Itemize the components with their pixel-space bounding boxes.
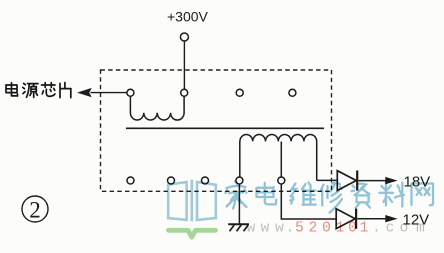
svg-text:0: 0	[322, 221, 331, 237]
watermark (site logo and url, decorative)	[168, 180, 433, 238]
wire +300V terminal to pin 2	[183, 41, 185, 89]
pin 4 (top row)	[289, 89, 296, 96]
label 电源芯片 (power chip), drawn strokes	[6, 83, 71, 98]
pin 2 (top row)	[181, 89, 188, 96]
svg-text:2: 2	[309, 221, 318, 237]
svg-text:5: 5	[295, 221, 304, 237]
svg-text:c: c	[386, 221, 395, 237]
wire pin 1 to arrow	[91, 92, 127, 94]
node +300V value label	[167, 9, 209, 25]
diode D1	[337, 171, 357, 191]
svg-text:0: 0	[348, 221, 357, 237]
terminal +300V	[180, 33, 188, 41]
wire D2 cathode to 12V output	[357, 215, 397, 222]
power chip U1 dashed outline	[101, 70, 332, 191]
pin 6 (bottom row)	[168, 177, 175, 184]
wire centre tap pin to diode D2	[281, 184, 336, 219]
svg-text:1: 1	[360, 221, 369, 237]
net label 12V	[403, 212, 430, 229]
svg-text:m: m	[416, 221, 425, 237]
pin 5 (bottom row)	[127, 177, 134, 184]
net label 18V	[404, 174, 431, 191]
wire secondary top end to diode D1	[317, 179, 338, 181]
pin 3 (top row)	[236, 89, 243, 96]
pin 9 (bottom row, centre tap)	[278, 177, 285, 184]
pin 8 (bottom row, secondary return)	[236, 177, 243, 184]
svg-text:2: 2	[29, 197, 41, 222]
ground (chassis)	[228, 224, 249, 231]
svg-text:w: w	[261, 221, 270, 237]
pin 7 (bottom row)	[202, 177, 209, 184]
figure number 2	[22, 196, 48, 222]
secondary winding L2	[240, 134, 317, 180]
svg-text:w: w	[247, 221, 256, 237]
svg-text:w: w	[275, 221, 284, 237]
arrow to power-chip label	[77, 88, 92, 97]
svg-text:+300V: +300V	[167, 9, 209, 25]
wire pin 8 to ground	[238, 184, 240, 224]
svg-text:.: .	[286, 221, 295, 237]
wire D1 cathode to 18V output	[358, 177, 397, 184]
wire secondary centre tap to pin	[280, 142, 282, 177]
transformer core	[126, 127, 324, 129]
svg-text:1: 1	[336, 221, 345, 237]
svg-text:.: .	[372, 221, 381, 237]
primary winding L1	[130, 96, 184, 120]
pin 1 (top row)	[127, 89, 134, 96]
diode D2	[336, 209, 356, 229]
svg-text:o: o	[400, 221, 409, 237]
